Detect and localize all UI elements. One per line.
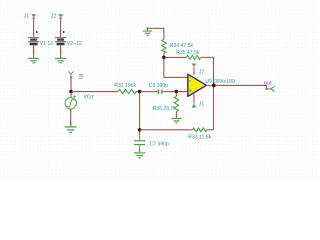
wire feedback vertical (R35/R33 to output node) [213,57,215,129]
wire V1 to ground [33,45,35,57]
svg-text:V2 -12: V2 -12 [67,41,82,47]
wire node B down to node C [139,93,141,129]
jumper J2 (op-amp V+) [192,64,205,76]
wire R33 to output corner [207,129,214,131]
wire node D to op-amp input [177,91,187,93]
svg-text:R34 47.5k: R34 47.5k [170,43,194,49]
node B [138,90,142,94]
ground (under R36) [171,119,181,123]
resistor R36 23.7k branch from node D [153,93,179,118]
jumper J2 (top-left) [51,14,64,20]
node A [69,90,73,94]
wire in-pin to node A [70,78,72,90]
wire R35 to feedback corner [200,56,213,58]
svg-text:R33 11.8k: R33 11.8k [188,135,211,141]
svg-text:R32 196k: R32 196k [114,83,136,89]
wire output node to out pin [215,85,267,88]
svg-text:R35 47.5k: R35 47.5k [176,50,200,56]
wire red pin to inverting input [180,76,188,78]
wire node A to VG1 [70,93,72,98]
ground (under V1) [28,58,39,62]
svg-text:R36 23.7k: R36 23.7k [153,106,177,112]
wire J2 to V2 [60,19,62,37]
resistor R32 196k [114,83,136,94]
svg-text:J1: J1 [24,14,30,20]
svg-text:J2: J2 [51,14,57,20]
op-amp output lead [207,84,213,86]
wire node C to R33 [141,129,193,131]
input pin "in" [68,71,84,79]
resistor R35 47.5k [176,50,200,59]
wire C9 to node D [163,91,176,93]
wire VG1 to ground [70,109,72,126]
svg-text:J2: J2 [199,70,205,76]
svg-text:J1: J1 [199,102,205,108]
svg-text:VG1: VG1 [84,95,94,101]
capacitor C7 390p branch from node C [134,131,169,152]
wire top ground to R34 [149,28,164,39]
svg-text:C7 390p: C7 390p [150,141,169,147]
ground (under V2) [55,58,66,62]
resistor R33 11.8k [188,128,211,141]
wire node E to R35 [165,56,186,58]
wire node A to R32 [72,91,118,93]
svg-text:U9 OPAx189: U9 OPAx189 [205,79,235,85]
wire R32 to node B [136,91,139,93]
capacitor C9 390p [149,83,168,94]
ground (under VG1) [65,127,77,132]
wire V2 to ground [60,45,62,57]
resistor R34 47.5k [162,39,194,56]
wire J1 to V1 [33,19,35,37]
node D [175,90,179,94]
wire node E down to op-amp inverting input [164,58,180,77]
node C [138,128,142,132]
svg-text:C9 390p: C9 390p [149,83,168,89]
ground (under C7) [134,153,145,158]
node E [162,56,166,60]
op-amp U9 OPAx189 [188,74,207,96]
svg-text:in: in [77,74,84,80]
node output [212,84,216,88]
svg-text:V1 12: V1 12 [40,41,53,47]
voltage generator VG1 [65,95,94,109]
battery V1 with value 12 [28,31,53,47]
svg-text:out: out [264,81,272,87]
wire node B to C9 [140,91,157,93]
jumper J1 (op-amp V-) [192,93,205,108]
ground (top, feeds R34) [143,27,152,35]
output pin "out" [264,81,275,92]
battery V2 with value -12 [55,31,82,47]
jumper J1 (top-left) [24,14,37,20]
